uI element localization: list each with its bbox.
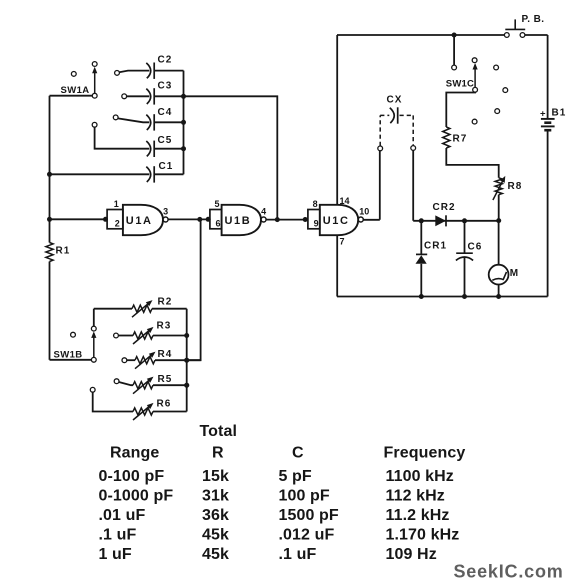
- svg-text:R8: R8: [508, 181, 523, 192]
- switch SW1A arm: [94, 69, 96, 94]
- switch SW1A contact off-left: [71, 72, 76, 77]
- svg-text:R3: R3: [157, 321, 172, 332]
- svg-text:.012 uF: .012 uF: [279, 527, 335, 544]
- svg-text:C5: C5: [158, 135, 173, 146]
- svg-text:U1C: U1C: [323, 215, 350, 227]
- svg-text:109 Hz: 109 Hz: [386, 546, 437, 563]
- wire C4 row: [118, 118, 149, 122]
- wire CX dashed left: [379, 115, 381, 146]
- svg-text:0-1000 pF: 0-1000 pF: [99, 488, 174, 505]
- wire CX dashed right: [400, 114, 414, 116]
- capacitor C4: [146, 115, 150, 130]
- svg-text:CX: CX: [387, 95, 403, 106]
- svg-text:.1 uF: .1 uF: [279, 546, 317, 563]
- svg-text:C2: C2: [158, 55, 173, 66]
- node bus C5: [181, 146, 186, 151]
- svg-text:0-100 pF: 0-100 pF: [99, 468, 165, 485]
- svg-text:R6: R6: [157, 398, 172, 409]
- wire U1C pin 7: [336, 235, 338, 296]
- svg-text:U1A: U1A: [126, 215, 153, 227]
- capacitor C6: [456, 252, 473, 254]
- svg-text:R4: R4: [158, 349, 173, 360]
- svg-text:5 pF: 5 pF: [279, 468, 312, 485]
- wire R4 row: [127, 359, 135, 361]
- switch SW1B contact R3: [114, 333, 119, 338]
- wire SW1A pole feed: [50, 95, 93, 97]
- wire U1C output: [363, 219, 379, 221]
- wire R2 row: [93, 309, 95, 327]
- node bus C3: [181, 94, 186, 99]
- svg-text:1: 1: [114, 199, 119, 209]
- wire SW1C pole to R7: [446, 92, 475, 127]
- switch SW1B contact R5: [114, 379, 119, 384]
- switch SW1A pole: [92, 93, 97, 98]
- svg-text:5: 5: [215, 199, 220, 209]
- gate U1B: [210, 210, 222, 229]
- wire C5 row: [95, 127, 150, 149]
- svg-text:C3: C3: [158, 81, 173, 92]
- wire CX right to pump node: [412, 150, 414, 221]
- svg-text:14: 14: [340, 196, 350, 206]
- wire CR1: [420, 221, 422, 255]
- switch SW1C contact 6: [472, 119, 477, 124]
- wire right rail: [547, 35, 549, 119]
- node CR1 top: [419, 218, 424, 223]
- switch SW1A contact C2: [115, 71, 120, 76]
- gate U1C: [308, 210, 320, 229]
- svg-text:3: 3: [163, 206, 168, 216]
- svg-text:100 pF: 100 pF: [279, 488, 330, 505]
- svg-text:6: 6: [216, 219, 221, 229]
- wire C2 row: [119, 71, 149, 73]
- switch SW1B arm: [93, 333, 95, 357]
- wire pump row: [413, 220, 499, 222]
- svg-text:R7: R7: [453, 134, 468, 145]
- svg-text:11.2 kHz: 11.2 kHz: [386, 507, 450, 524]
- battery B1: [541, 118, 555, 120]
- wire SW1B pole feed: [50, 359, 92, 361]
- svg-text:U1B: U1B: [224, 215, 251, 227]
- svg-text:15k: 15k: [202, 468, 229, 485]
- svg-text:C1: C1: [159, 161, 174, 172]
- wire U1A input: [50, 218, 108, 220]
- svg-text:R5: R5: [158, 374, 173, 385]
- wire SW1C feed: [453, 35, 455, 65]
- switch SW1C contact 4: [503, 88, 508, 93]
- svg-text:45k: 45k: [202, 546, 229, 563]
- svg-text:1 uF: 1 uF: [99, 546, 132, 563]
- wire U1A output: [168, 218, 210, 220]
- svg-text:112 kHz: 112 kHz: [386, 488, 445, 505]
- svg-text:SW1C: SW1C: [446, 79, 474, 90]
- svg-text:SW1A: SW1A: [61, 85, 90, 96]
- wire left rail: [49, 96, 51, 243]
- svg-text:B1: B1: [552, 107, 567, 118]
- svg-text:1100 kHz: 1100 kHz: [386, 468, 454, 485]
- resistor R3: [133, 332, 153, 339]
- node top-rail/SW1C junction: [452, 33, 457, 38]
- svg-text:Total: Total: [200, 423, 238, 440]
- switch SW1C contact top: [472, 58, 477, 63]
- switch SW1C arm: [474, 65, 476, 88]
- svg-text:+: +: [540, 108, 546, 119]
- switch SW1C contact 3: [494, 65, 499, 70]
- switch SW1B pole: [91, 357, 96, 362]
- wire capacitor bus: [183, 71, 185, 175]
- svg-text:C: C: [292, 444, 304, 461]
- wire U1C pin 14: [336, 35, 338, 205]
- svg-text:1.170 kHz: 1.170 kHz: [386, 527, 460, 544]
- svg-text:C6: C6: [468, 242, 483, 253]
- capacitor C5: [146, 141, 150, 156]
- wire C1 row: [50, 173, 150, 175]
- meter M: [489, 265, 509, 285]
- switch SW1A contact C5: [92, 122, 97, 127]
- svg-text:10: 10: [359, 206, 369, 216]
- node U1A input tap: [47, 217, 52, 222]
- wire C6: [464, 221, 466, 253]
- switch SW1C contact feed: [452, 65, 457, 70]
- resistor R5: [133, 382, 153, 389]
- svg-text:R2: R2: [158, 297, 173, 308]
- wire C3 row: [127, 95, 150, 97]
- node U1A-U1B: [197, 217, 202, 222]
- switch SW1A contact off-top: [92, 62, 97, 67]
- svg-text:R: R: [212, 444, 224, 461]
- svg-text:36k: 36k: [202, 507, 229, 524]
- node U1C input: [303, 217, 308, 222]
- switch SW1C pole: [473, 87, 478, 92]
- wire bottom rail: [337, 296, 548, 298]
- svg-text:M: M: [510, 268, 518, 279]
- svg-text:Frequency: Frequency: [384, 444, 466, 461]
- resistor R8: [495, 178, 502, 195]
- svg-text:31k: 31k: [202, 488, 229, 505]
- svg-text:Range: Range: [110, 444, 159, 461]
- svg-text:1500 pF: 1500 pF: [279, 507, 339, 524]
- svg-text:.1 uF: .1 uF: [99, 527, 137, 544]
- node bus R3: [184, 333, 189, 338]
- switch SW1B contact off-left: [71, 332, 76, 337]
- svg-text:CR2: CR2: [433, 202, 456, 213]
- node R8 bottom: [496, 218, 501, 223]
- svg-text:SW1B: SW1B: [54, 349, 83, 360]
- switch SW1B contact R2: [91, 326, 96, 331]
- node C1 tap: [47, 172, 52, 177]
- switch SW1C contact 5: [495, 109, 500, 114]
- wire top rail +V: [337, 34, 505, 36]
- svg-text:45k: 45k: [202, 527, 229, 544]
- wire node to R bank: [188, 219, 201, 360]
- wire C3 node to U1B output: [184, 96, 278, 219]
- resistor R2: [132, 305, 152, 312]
- svg-text:4: 4: [261, 206, 266, 216]
- node CR1 bottom: [419, 294, 424, 299]
- resistor R1: [46, 243, 53, 262]
- svg-text:P. B.: P. B.: [522, 14, 545, 25]
- wire meter: [498, 221, 500, 265]
- switch SW1A contact C4: [113, 115, 118, 120]
- node U1B out / C3 drop: [275, 217, 280, 222]
- node meter bottom: [496, 294, 501, 299]
- wire U1B output: [266, 219, 308, 221]
- node C6 bottom: [462, 294, 467, 299]
- resistor R4: [135, 357, 155, 364]
- svg-text:8: 8: [313, 199, 318, 209]
- terminal CX right: [411, 146, 416, 151]
- svg-text:CR1: CR1: [424, 241, 447, 252]
- resistor R6: [133, 408, 153, 415]
- pushbutton P.B.: [504, 33, 509, 38]
- terminal CX left: [378, 146, 383, 151]
- svg-text:7: 7: [340, 237, 345, 247]
- resistor R7: [443, 127, 450, 148]
- wire R7 to R8: [446, 148, 498, 178]
- gate U1A: [107, 210, 123, 229]
- wire R8 to node: [498, 195, 500, 221]
- svg-text:.01 uF: .01 uF: [99, 507, 146, 524]
- svg-text:R1: R1: [56, 246, 71, 257]
- switch SW1B contact R6: [90, 387, 95, 392]
- node C6 top: [462, 218, 467, 223]
- capacitor C2: [146, 63, 150, 78]
- diode CR1: [416, 253, 427, 255]
- node U1A input: [103, 217, 108, 222]
- capacitor C3: [146, 89, 150, 104]
- svg-text:C4: C4: [158, 107, 173, 118]
- svg-text:SeekIC.com: SeekIC.com: [454, 561, 564, 581]
- wire R6 row: [93, 392, 133, 411]
- diode CR2: [435, 215, 446, 226]
- switch SW1B contact R4: [122, 358, 127, 363]
- node bus R4: [184, 358, 189, 363]
- wire R5 row: [119, 382, 133, 385]
- switch SW1A contact C3: [122, 94, 127, 99]
- node bus C4: [181, 120, 186, 125]
- capacitor CX: [390, 108, 394, 123]
- svg-text:2: 2: [115, 219, 120, 229]
- node bus R5: [184, 383, 189, 388]
- svg-text:9: 9: [314, 219, 319, 229]
- capacitor C1: [146, 167, 150, 182]
- wire R3 row: [118, 335, 133, 337]
- wire R bank bus: [186, 309, 188, 412]
